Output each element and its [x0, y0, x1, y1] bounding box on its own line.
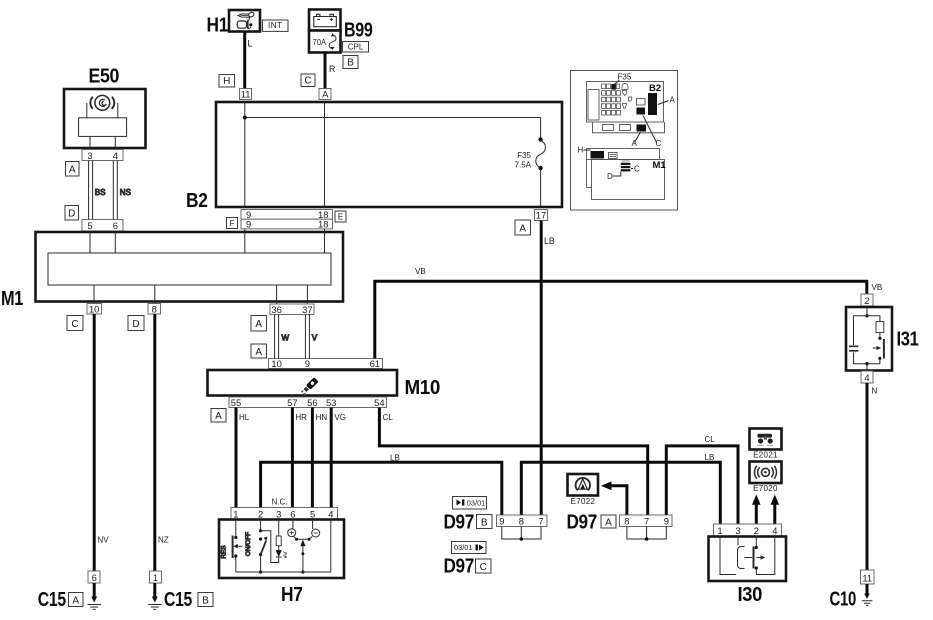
svg-text:CPL: CPL [348, 42, 364, 51]
svg-text:9: 9 [499, 516, 504, 527]
svg-text:N.C.: N.C. [272, 498, 288, 507]
media marker (until 03/01) [453, 497, 487, 510]
label INT [263, 20, 289, 31]
connector label A (M10 top) [251, 344, 267, 358]
arrow wire to E7022 from D97A-8 [601, 481, 627, 515]
svg-text:A: A [605, 517, 612, 528]
svg-text:D: D [132, 319, 139, 330]
svg-text:A: A [255, 347, 262, 358]
E50 siren icon [90, 95, 114, 110]
inset M1 drawing [578, 146, 667, 200]
svg-text:A: A [215, 411, 222, 422]
wire BS (double line) [89, 161, 106, 220]
ground C15 B [148, 583, 192, 611]
svg-text:54: 54 [374, 397, 384, 408]
svg-text:61: 61 [370, 358, 380, 369]
svg-text:L: L [248, 39, 253, 49]
svg-text:36: 36 [271, 304, 281, 315]
svg-text:B2: B2 [186, 189, 208, 212]
wire N from I31-4 to C10 [867, 383, 878, 570]
svg-text:VB: VB [415, 267, 426, 276]
svg-text:E2021: E2021 [753, 450, 778, 459]
pin 10 (M1) [87, 303, 102, 314]
cigar lighter M10 [208, 358, 441, 399]
I30 connector row 1 3 2 4 [714, 524, 782, 537]
svg-text:V: V [312, 334, 318, 343]
svg-text:H: H [578, 146, 584, 155]
svg-text:HR: HR [295, 413, 307, 422]
svg-text:NV: NV [98, 536, 110, 545]
ground C10 [830, 584, 873, 611]
svg-text:C10: C10 [830, 588, 857, 611]
interior light delay I31 [846, 294, 919, 383]
svg-text:R: R [329, 64, 335, 74]
svg-text:8: 8 [624, 516, 629, 527]
connector label C (M1-10) [67, 316, 83, 331]
E50 internal block [79, 103, 127, 150]
svg-text:9: 9 [246, 219, 251, 230]
wire LB from B2-17 to D97B-7 [541, 221, 555, 516]
svg-text:18: 18 [318, 219, 328, 230]
connector label F [227, 218, 238, 229]
svg-text:H1: H1 [207, 14, 229, 37]
inset small connectors [603, 99, 662, 149]
svg-text:7.5A: 7.5A [515, 161, 532, 170]
connector label E [335, 211, 346, 222]
svg-text:57: 57 [287, 397, 297, 408]
svg-text:4: 4 [772, 525, 777, 536]
svg-text:03/01: 03/01 [454, 543, 473, 552]
svg-text:C15: C15 [38, 588, 66, 611]
svg-text:CL: CL [383, 413, 394, 422]
connector label B [343, 56, 358, 69]
svg-text:D97: D97 [567, 511, 598, 534]
svg-text:C: C [71, 319, 78, 330]
wire LB from H7-2 to D97B-9 and on to I30-1 [261, 453, 721, 524]
svg-text:D97: D97 [444, 555, 475, 578]
svg-text:NS: NS [120, 188, 131, 197]
svg-text:10: 10 [89, 303, 99, 314]
svg-text:ON/OFF: ON/OFF [245, 532, 252, 556]
wire NV to C15A [94, 314, 109, 571]
svg-text:A: A [670, 96, 676, 105]
E50 connector pins 3 4 [82, 150, 123, 161]
B99 fuse 70A [313, 33, 337, 50]
wire HR [292, 408, 307, 508]
svg-text:M10: M10 [405, 376, 441, 399]
wire VB from M10-61 to I31-2 [375, 267, 882, 359]
svg-text:9: 9 [664, 516, 669, 527]
M10 bottom connector row [229, 397, 387, 408]
B2 internal wiring [243, 102, 543, 207]
svg-text:I31: I31 [897, 328, 919, 351]
E7020 icon ((O)) [755, 466, 777, 479]
wire VG [331, 408, 346, 508]
svg-text:A: A [632, 139, 638, 148]
svg-text:VG: VG [334, 413, 346, 422]
brake fluid switch I30 [709, 537, 787, 607]
svg-text:1: 1 [233, 508, 238, 519]
svg-text:CL: CL [705, 435, 716, 444]
svg-text:LB: LB [544, 236, 555, 246]
splice D97 C [444, 555, 492, 578]
svg-text:4: 4 [113, 150, 118, 161]
inset F35 fuse highlight [611, 73, 632, 90]
svg-text:B: B [481, 517, 488, 528]
svg-text:3: 3 [87, 150, 92, 161]
wire CL from D97A-9 to I30-3 [666, 435, 738, 524]
pin 11 (C10) [861, 570, 875, 584]
H7 internals: plus/minus selector [288, 520, 320, 574]
svg-text:C: C [304, 76, 311, 87]
B2 bottom connector row 9 18 (E) [241, 209, 333, 220]
fuse F35 7.5A [515, 141, 546, 170]
svg-text:2: 2 [754, 525, 759, 536]
component E50 (alarm siren) [64, 65, 146, 149]
H1 key icon [237, 12, 254, 29]
wire L [245, 32, 253, 89]
svg-text:1: 1 [153, 572, 158, 583]
svg-text:8: 8 [519, 516, 524, 527]
svg-text:BS: BS [95, 188, 106, 197]
svg-text:A: A [72, 595, 79, 606]
warning lamp E7022 [568, 474, 599, 506]
inset fusebox outline [587, 82, 665, 133]
connector label A (M10) [211, 409, 226, 423]
connector label D (M1-8) [128, 316, 144, 331]
connector label A (C15) [69, 593, 84, 607]
wire NS (double line) [113, 161, 131, 220]
connector label D [65, 206, 79, 221]
svg-text:A: A [69, 164, 76, 175]
svg-text:7: 7 [644, 516, 649, 527]
H7 internals: bottom bus and pin 4 [236, 520, 331, 573]
svg-text:E7022: E7022 [571, 497, 596, 506]
svg-text:HL: HL [239, 413, 250, 422]
connector label A [66, 162, 80, 177]
connector label B (C15B) [198, 593, 213, 607]
svg-text:VB: VB [872, 283, 883, 292]
connector label C [301, 74, 315, 87]
svg-text:F35: F35 [618, 73, 632, 82]
svg-text:LB: LB [705, 453, 715, 462]
svg-text:D: D [68, 208, 75, 219]
svg-text:4: 4 [864, 372, 869, 383]
wire NZ to C15B [155, 314, 169, 571]
svg-text:03/01: 03/01 [467, 499, 486, 508]
splice D97 B [444, 511, 548, 534]
H7 internals: RES pushbutton [221, 520, 243, 573]
ground C15 A [38, 583, 101, 611]
svg-text:2: 2 [864, 295, 869, 306]
svg-text:11: 11 [241, 89, 251, 100]
D97 A shorting bridge [627, 527, 666, 541]
svg-text:6: 6 [290, 508, 295, 519]
svg-text:2: 2 [258, 508, 263, 519]
splice D97 A [567, 511, 673, 534]
svg-text:B2: B2 [649, 83, 661, 94]
body computer M1 [1, 232, 343, 310]
connector label H [219, 75, 235, 88]
svg-text:LB: LB [390, 453, 400, 462]
connector label A (M1 36) [251, 316, 267, 332]
svg-text:9: 9 [305, 358, 310, 369]
svg-text:A: A [519, 223, 526, 234]
pin 11 (B2) [240, 89, 252, 100]
svg-text:E50: E50 [89, 65, 120, 88]
svg-text:D: D [607, 172, 613, 181]
svg-text:M1: M1 [653, 160, 667, 171]
M1 top connector pins 5 6 [82, 220, 123, 232]
inset B2 connector (black) [648, 83, 676, 115]
wires rows to M1 [245, 229, 325, 232]
svg-text:4: 4 [328, 508, 333, 519]
B99 battery icon [314, 14, 337, 26]
wire V (double line) [305, 315, 317, 359]
svg-text:70A: 70A [313, 38, 327, 47]
component H1 (ignition switch) [207, 10, 261, 37]
svg-text:C: C [656, 139, 662, 148]
pin 17 (B2 bottom) [535, 210, 548, 221]
svg-text:1: 1 [717, 525, 722, 536]
pin 8 (M1) [148, 303, 161, 314]
svg-text:F: F [230, 219, 235, 228]
media marker (from 03/01) [452, 542, 487, 554]
M1 internal stubs [90, 232, 325, 304]
trailer lamp E2021 [750, 429, 782, 460]
H7 internals: ON/OFF switch [245, 520, 279, 574]
wire HN [312, 408, 327, 508]
wire R [325, 53, 335, 89]
svg-text:N: N [872, 387, 878, 396]
inset: component location drawing [571, 71, 678, 211]
switch H7 [219, 520, 344, 607]
svg-text:A: A [322, 89, 329, 100]
svg-text:55: 55 [231, 397, 241, 408]
svg-text:7: 7 [538, 516, 543, 527]
arrow up from I30-2 [752, 495, 761, 525]
svg-text:11: 11 [862, 572, 872, 583]
E7022 icon (circle+A) [576, 478, 590, 490]
pin 6 (C15A) [88, 571, 100, 583]
svg-text:E7020: E7020 [753, 484, 778, 493]
svg-text:RES: RES [221, 545, 228, 558]
svg-text:HN: HN [316, 413, 328, 422]
B2-M1 connector row 9 18 (F) [241, 219, 333, 230]
svg-text:3: 3 [735, 525, 740, 536]
svg-text:W: W [282, 334, 290, 343]
svg-text:INT: INT [268, 21, 282, 30]
svg-text:5: 5 [87, 220, 92, 231]
M10 lighter icon [300, 377, 318, 395]
svg-text:10: 10 [271, 358, 281, 369]
D97 B shorting bridge [502, 527, 541, 541]
pin 1 (C15B) [150, 571, 162, 583]
svg-text:56: 56 [307, 397, 317, 408]
svg-text:H7: H7 [281, 583, 303, 606]
svg-text:H: H [223, 76, 230, 87]
svg-text:6: 6 [92, 572, 97, 583]
svg-text:6: 6 [113, 220, 118, 231]
wire W (double line) [275, 315, 290, 359]
wire CL from M10-54 [379, 408, 647, 516]
svg-text:B: B [347, 57, 354, 68]
svg-text:53: 53 [326, 397, 336, 408]
svg-text:5: 5 [310, 508, 315, 519]
svg-text:C15: C15 [164, 588, 192, 611]
H7 top connector row 1 2 3 6 5 4 [231, 508, 338, 520]
connector label A (B2 17) [515, 220, 531, 235]
svg-text:A: A [255, 319, 262, 330]
svg-text:C: C [634, 165, 640, 174]
svg-text:37: 37 [302, 304, 312, 315]
svg-text:8: 8 [152, 303, 157, 314]
wire HL [236, 408, 250, 508]
svg-text:17: 17 [536, 210, 546, 221]
pins 36 37 (M1) [270, 304, 314, 315]
svg-text:I30: I30 [738, 583, 763, 606]
svg-text:C: C [480, 562, 487, 573]
component B99 (battery) [309, 10, 373, 53]
brake lamp E7020 [750, 462, 782, 494]
I31 internals [849, 307, 884, 371]
E2021 icon [758, 434, 774, 446]
arrow up from I30-4 [771, 495, 780, 525]
H7 internals: illumination resistor + LED [276, 520, 286, 558]
fuse box B2 [186, 102, 562, 212]
svg-text:E: E [338, 212, 343, 221]
svg-text:B99: B99 [344, 18, 373, 41]
svg-text:F35: F35 [517, 151, 531, 160]
svg-text:B: B [202, 595, 209, 606]
svg-text:M1: M1 [1, 287, 23, 310]
label CPL [343, 42, 369, 53]
pin A (B2) [319, 89, 331, 100]
inset fuse grid [602, 84, 633, 116]
svg-text:NZ: NZ [158, 536, 169, 545]
svg-text:3: 3 [276, 508, 281, 519]
I30 internals [720, 537, 775, 575]
svg-text:D97: D97 [444, 511, 475, 534]
